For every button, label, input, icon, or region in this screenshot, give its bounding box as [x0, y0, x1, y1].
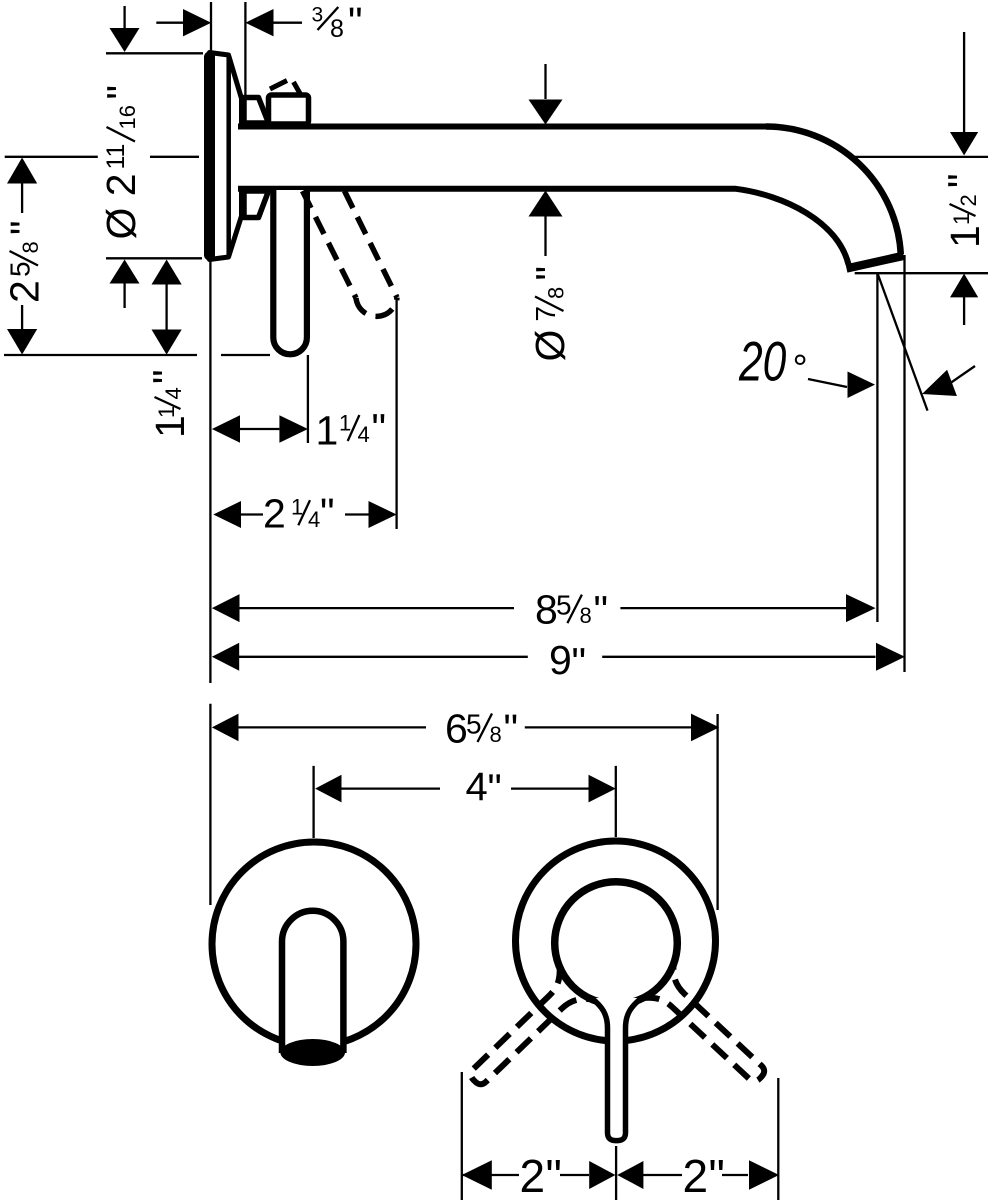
svg-text:8: 8 — [18, 241, 43, 253]
svg-text:20: 20 — [738, 330, 786, 393]
dimension 2-5/8 shafts — [21, 183, 23, 329]
dashed mini lever up — [270, 81, 300, 94]
label 2 second — [683, 1150, 725, 1200]
extension line: dashed lever tip — [395, 298, 397, 529]
svg-text:8: 8 — [330, 15, 344, 43]
svg-text:": " — [99, 85, 145, 100]
extension line: 2in middle — [615, 1146, 617, 1200]
svg-text:5: 5 — [466, 709, 482, 740]
label 2 first — [520, 1150, 562, 1200]
arrow dia2 top (down) — [110, 28, 140, 52]
svg-text:": " — [372, 405, 387, 451]
svg-text:": " — [594, 587, 609, 633]
extension line: spout centerline left — [5, 156, 199, 158]
dimension 4 shafts — [341, 787, 589, 789]
label 2-1/4 — [263, 490, 335, 536]
arrow 1-1/4h left — [212, 415, 240, 442]
svg-text:4: 4 — [358, 422, 370, 447]
arrow 1-1/4v bottom (down) — [152, 330, 182, 355]
svg-text:1: 1 — [942, 225, 988, 248]
svg-text:": " — [940, 173, 986, 188]
svg-text:6: 6 — [445, 705, 468, 751]
svg-text:": " — [572, 639, 587, 685]
label 4 — [466, 765, 502, 811]
spout outlet face — [847, 256, 904, 269]
svg-text:2: 2 — [263, 491, 286, 537]
svg-text:2: 2 — [956, 194, 981, 206]
label dia 7/8 rotated — [527, 266, 574, 362]
arrow 20deg left-pointing — [922, 370, 957, 396]
svg-text:8: 8 — [535, 587, 558, 633]
svg-text:11: 11 — [102, 144, 130, 170]
dimension dia 7/8 shafts — [544, 64, 546, 256]
svg-text:": " — [528, 266, 574, 281]
20 degree tilted line — [877, 273, 927, 411]
svg-text:": " — [145, 369, 191, 384]
svg-text:": " — [546, 1150, 562, 1200]
arrow 2a right (bowtie left) — [589, 1161, 615, 1189]
svg-text:4: 4 — [161, 387, 186, 399]
dimension 8-5/8 shafts — [239, 607, 846, 609]
svg-text:1: 1 — [316, 408, 339, 454]
extension line: plate top — [106, 52, 203, 54]
escutcheon cone base edge — [226, 57, 231, 256]
20 degree leader left — [808, 379, 847, 387]
svg-text:": " — [320, 490, 335, 536]
extension line: 4 left (circle 1 center) — [312, 766, 314, 838]
arrow 4 left — [315, 775, 341, 803]
arrow 6-5/8 right — [691, 714, 719, 742]
svg-text:2: 2 — [520, 1150, 546, 1200]
extension line: 1-1/2 top — [855, 156, 988, 158]
extension line: plate bottom — [106, 257, 202, 259]
svg-text:8: 8 — [490, 722, 502, 747]
dimension 3/8 shafts — [156, 22, 302, 24]
label 3/8 — [312, 0, 363, 45]
svg-text:5: 5 — [5, 261, 36, 277]
arrow 1-1/2 bottom (up) — [950, 274, 978, 298]
arrow 6-5/8 left — [212, 714, 239, 742]
extension line: 2in right — [777, 1078, 779, 1200]
svg-text:8: 8 — [544, 287, 569, 299]
extension line: spout tip (9 right) — [903, 255, 905, 672]
dimension 2+2 shafts — [462, 1174, 748, 1176]
label 6-5/8 — [445, 705, 518, 752]
escutcheon plate side view — [210, 53, 242, 260]
arrow 2b left (bowtie right) — [617, 1161, 643, 1189]
svg-text:°: ° — [793, 348, 808, 390]
svg-text:9: 9 — [549, 637, 572, 683]
arrow 2b right — [749, 1160, 779, 1189]
extension line: 4 right (circle 2 center) — [615, 766, 617, 837]
valve nut lower small — [244, 191, 269, 218]
svg-text:": " — [2, 220, 48, 235]
svg-text:1: 1 — [291, 495, 303, 520]
dimension 1-1/4 vertical shaft — [165, 284, 167, 330]
label dia 2-11/16 rotated — [98, 85, 145, 240]
svg-text:16: 16 — [115, 105, 140, 129]
svg-text:5: 5 — [556, 590, 572, 621]
spout outer bend — [766, 127, 901, 255]
arrow dia7/8 top (down) — [529, 100, 563, 125]
arrow 2a left — [462, 1160, 492, 1189]
arrow 2-5/8 bottom (down) — [7, 329, 37, 355]
svg-text:4: 4 — [466, 765, 488, 809]
arrow 4 right — [589, 775, 616, 803]
svg-text:Ø 2: Ø 2 — [98, 173, 144, 239]
arrow 8-5/8 left — [212, 594, 240, 622]
arrow 2-1/4 right — [369, 501, 397, 528]
extension line: 6-5/8 right — [716, 714, 718, 910]
spout front view tube — [282, 911, 343, 1053]
svg-text:3: 3 — [312, 3, 324, 26]
label 20 degrees — [738, 330, 808, 393]
lever solid side view — [273, 190, 307, 354]
extension line: wall vertical lower — [209, 704, 211, 905]
arrow 1-1/4h right — [279, 415, 308, 442]
handle knob ring — [555, 882, 678, 1005]
arrow 1-1/4v top (up) — [152, 260, 182, 285]
valve nut upper large — [269, 95, 309, 124]
dimension 2-1/4 shafts — [241, 513, 369, 515]
arrow dia7/8 bottom (up) — [529, 191, 563, 217]
valve nut upper small — [244, 98, 269, 124]
label 1-1/4 rotated — [145, 369, 194, 438]
arrow 3/8 right — [245, 9, 273, 36]
extension line: outlet vertical (20 deg reference / 8-5/8 right) — [876, 273, 878, 622]
svg-text:Ø: Ø — [527, 330, 573, 362]
arrow 20deg right-pointing — [848, 372, 876, 399]
svg-text:": " — [348, 0, 363, 45]
arrow dia2 bottom (up) — [110, 260, 140, 284]
arrow 3/8 left — [183, 9, 211, 36]
arrow 2-5/8 top (up) — [7, 158, 37, 184]
left escutcheon circle front — [212, 842, 416, 1046]
label 1-1/4 horizontal — [316, 405, 387, 453]
label 1-1/2 rotated — [940, 173, 988, 248]
dimension dia 2-11/16 shafts — [123, 6, 125, 308]
spout bottom edge and inner bend — [238, 189, 849, 265]
spout top edge — [238, 124, 768, 130]
right escutcheon circle front — [516, 841, 716, 1041]
label 9 — [549, 637, 586, 685]
svg-text:": " — [488, 767, 502, 811]
spout opening ellipse — [280, 1039, 345, 1066]
svg-text:2: 2 — [2, 280, 48, 303]
extension line: 1-1/2 bottom — [855, 272, 988, 274]
handle shaft front — [592, 998, 642, 1141]
extension line: wall vertical upper — [209, 258, 211, 683]
dimension 6-5/8 shafts — [238, 726, 692, 728]
dimension 9 shafts — [239, 656, 876, 658]
arrow 9 left — [212, 643, 239, 671]
arrow 8-5/8 right — [846, 594, 876, 622]
extension line: wall plane above plate (3/8 left) — [210, 2, 212, 52]
handle dashed positions — [457, 962, 778, 1099]
spout body fill — [237, 127, 903, 267]
svg-text:": " — [504, 706, 519, 752]
svg-text:8: 8 — [580, 603, 592, 628]
arrow 9 right — [876, 643, 905, 671]
dimension 1-1/2 shafts — [963, 32, 965, 325]
arrow 2-1/4 left — [213, 501, 241, 528]
svg-text:1: 1 — [339, 411, 351, 436]
extension line: 2in left — [461, 1072, 463, 1200]
svg-text:2: 2 — [683, 1150, 709, 1200]
label 2-5/8 rotated — [2, 220, 49, 303]
svg-text:4: 4 — [308, 507, 320, 532]
label 8-5/8 — [535, 587, 608, 634]
extension line: lever bottom — [4, 354, 270, 356]
arrow 1-1/2 top (down) — [950, 132, 978, 155]
svg-text:": " — [709, 1150, 725, 1200]
20 degree leader right — [949, 366, 975, 384]
extension line: cone face (3/8 right) — [244, 2, 246, 96]
lever dashed side view — [303, 191, 398, 316]
extension line: lever right edge — [307, 355, 309, 443]
dimension 1-1/4 horizontal shaft — [240, 428, 279, 430]
